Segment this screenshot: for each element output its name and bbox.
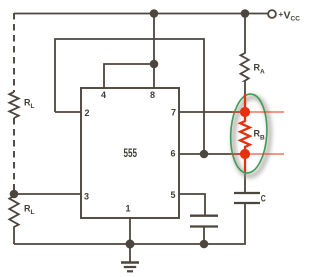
node junction top rail / pin8 <box>150 9 159 18</box>
svg-text:A: A <box>260 69 265 76</box>
wire pin5 to bypass capacitor <box>179 194 205 215</box>
node junction RB/C pin6 (red) <box>240 149 250 159</box>
wire pin1 to ground rail <box>129 218 131 244</box>
node junction top rail / RA <box>241 9 250 18</box>
wire top +Vcc rail <box>14 13 268 15</box>
capacitor C bottom plate <box>234 202 260 204</box>
wire left dashed upper segment <box>13 13 15 92</box>
wire bottom ground rail <box>14 203 245 244</box>
wire pin2 feedback: pin2 up over to pin6 column <box>55 39 204 154</box>
capacitor C top plate <box>234 192 260 194</box>
capacitor bypass (pin5) bottom plate <box>190 225 218 227</box>
wire pin3 output to left rail <box>14 193 81 195</box>
svg-text:4: 4 <box>101 90 106 100</box>
svg-text:L: L <box>31 103 35 110</box>
wire pin2 stub <box>55 111 81 113</box>
svg-text:1: 1 <box>126 204 131 214</box>
wire pin4 to pin8 over-top link <box>104 64 154 88</box>
svg-text:C: C <box>261 194 266 205</box>
svg-text:3: 3 <box>84 192 89 202</box>
wire pin7 to RA/RB node <box>179 111 245 113</box>
node junction bypass cap / ground rail <box>200 240 209 249</box>
node junction pin4/pin8 link <box>150 60 159 69</box>
highlight ellipse around RB <box>229 93 269 174</box>
node junction pin1 / ground rail <box>126 240 135 249</box>
resistor RA <box>241 14 249 95</box>
svg-text:B: B <box>260 135 265 142</box>
wire pin8 up to +Vcc rail <box>153 14 155 89</box>
svg-text:555: 555 <box>124 148 138 160</box>
svg-text:8: 8 <box>150 90 155 100</box>
wire left dashed lower segment <box>13 118 15 194</box>
svg-text:7: 7 <box>171 108 176 118</box>
capacitor bypass (pin5) top plate <box>190 215 218 217</box>
wire pin6 to RB/C node <box>179 153 245 155</box>
red callout line pin7 level <box>232 111 284 113</box>
svg-text:V: V <box>284 10 291 22</box>
op-amp U1 555 timer body <box>81 88 179 218</box>
resistor RL (upper) <box>9 92 18 118</box>
ground <box>121 244 139 271</box>
wire RB node down to capacitor C <box>244 171 246 193</box>
highlight ellipse shadow <box>231 96 271 177</box>
svg-text:5: 5 <box>171 190 176 200</box>
resistor RB (red, highlighted) <box>240 94 250 171</box>
node junction pin6 / pin2 link <box>200 150 209 159</box>
node junction RA/RB pin7 (red) <box>240 107 250 117</box>
svg-text:6: 6 <box>171 149 176 159</box>
svg-text:CC: CC <box>291 16 301 23</box>
svg-text:2: 2 <box>85 108 90 118</box>
svg-text:L: L <box>31 209 35 216</box>
node junction left rail / pin3 <box>10 190 19 199</box>
resistor RL (lower) <box>9 194 18 244</box>
wire bypass capacitor to ground rail <box>203 227 205 244</box>
red callout line pin6 level <box>232 153 284 155</box>
terminal +Vcc <box>268 10 276 18</box>
